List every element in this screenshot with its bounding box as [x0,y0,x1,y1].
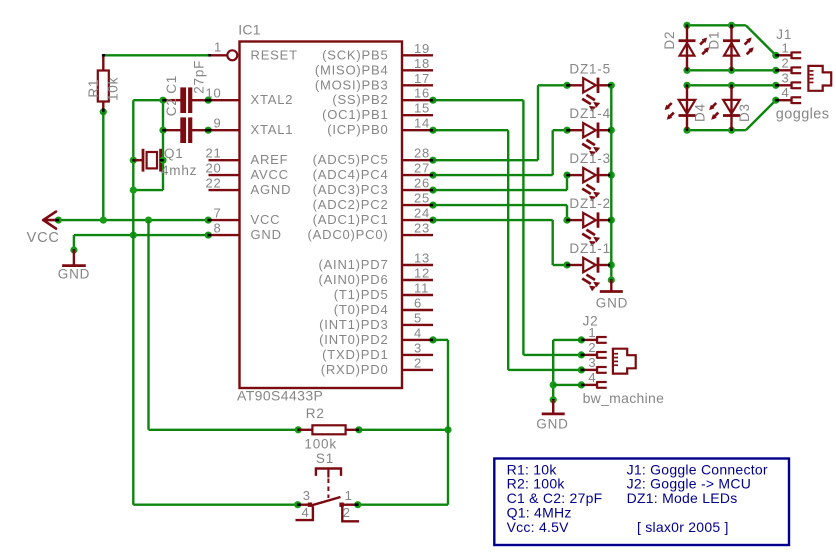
pin 23 stub (right) [402,234,433,236]
ground symbol (DZ LEDs) [600,280,623,292]
junction C2 right pin9 [205,127,212,134]
svg-text:26: 26 [414,176,430,191]
junction J1 pin 2 [772,67,779,74]
junction at pin 27 [429,172,436,179]
svg-text:goggles: goggles [776,106,830,122]
svg-text:8: 8 [213,221,221,236]
junction D2 top [683,22,690,29]
junction D2 bottom [683,67,690,74]
resistor R1 body [98,55,109,112]
junction S1 pin3 [294,501,301,508]
svg-text:13: 13 [414,251,430,266]
svg-text:(MISO)PB4: (MISO)PB4 [315,62,389,77]
wire D2 D1 cathode top to J1 pin1 [687,25,776,55]
svg-text:R1: R1 [86,79,101,98]
pin number 17 [414,71,430,86]
junction DZ1-4 anode [563,127,570,134]
IC IC1 AT90S4433P body outline [240,42,403,389]
wire PC2 pin25 to DZ1-2 [433,205,567,220]
pin 7 stub (left) [209,219,240,221]
Q1 label [164,146,184,161]
J2 pin number 4 [588,370,596,385]
svg-text:IC1: IC1 [238,22,261,38]
svg-text:AT90S4433P: AT90S4433P [237,388,323,404]
junction at pin 16 [429,97,436,104]
pin name RESET [251,47,298,62]
D1 label [707,31,722,50]
junction C1 right pin10 [205,97,212,104]
R2 label [306,406,325,421]
svg-text:27pF: 27pF [191,60,206,94]
svg-text:(OC1)PB1: (OC1)PB1 [322,107,388,122]
pin 4 stub (right) [402,339,433,341]
legend text R2: 100k [507,476,566,492]
pin 21 stub (left) [209,159,240,161]
J1 pin 4 [777,97,801,104]
J2 label [583,313,599,328]
pin 12 stub (right) [402,279,433,281]
svg-text:20: 20 [205,161,221,176]
pin number 9 [213,116,221,131]
junction C1 left [159,97,166,104]
junction J1 pin 3 [772,82,779,89]
svg-text:1: 1 [345,488,353,503]
pin number 28 [414,146,430,161]
pin name (T1)PD5 [334,287,389,302]
pin 9 stub (left) [209,129,240,131]
pin number 13 [414,251,430,266]
wire VCC rail [58,219,208,221]
wire PB2 pin16 to J2 pin2 [433,100,581,355]
junction D4 bottom [683,127,690,134]
svg-text:100k: 100k [304,436,336,451]
svg-text:(AIN0)PD6: (AIN0)PD6 [318,272,388,287]
wire GND rail [74,235,209,250]
pin number 3 [414,340,422,355]
svg-text:(AIN1)PD7: (AIN1)PD7 [318,257,388,272]
svg-text:2: 2 [782,55,790,70]
junction J1 pin 1 [772,52,779,59]
pin number 24 [414,206,430,221]
C1 label [164,75,179,94]
J1 pin number 4 [782,85,790,100]
svg-text:10k: 10k [106,77,121,101]
svg-text:(SS)PB2: (SS)PB2 [332,92,388,107]
resistor R2 body [300,425,359,434]
junction DZ1-1 cathode [608,261,615,268]
S1 label [316,451,334,466]
svg-text:4: 4 [588,370,596,385]
J1 pin number 1 [782,40,790,55]
junction J2 pin 2 [578,351,585,358]
pin 3 stub (right) [402,354,433,356]
junction lineA Q1 left [130,157,137,164]
wire D4 D3 cathode to J1 pin4 [687,100,776,130]
pin 26 stub (right) [402,189,433,191]
wire S1 to INT0 junction [358,430,448,505]
legend box frame [494,459,789,546]
svg-text:3: 3 [588,355,596,370]
crystal Q1 [135,149,164,172]
R2 value 100k [304,436,336,451]
svg-text:(ADC5)PC5: (ADC5)PC5 [313,152,389,167]
legend text J2: Goggle -&gt; MCU [627,476,751,492]
svg-text:7: 7 [213,206,221,221]
svg-text:(T1)PD5: (T1)PD5 [334,287,389,302]
pin name GND [251,227,282,242]
LED D1 [723,27,754,69]
pin 16 stub (right) [402,99,433,101]
svg-text:(ICP)PB0: (ICP)PB0 [327,122,388,137]
junction DZ1-4 cathode [608,127,615,134]
pin name AGND [251,182,292,197]
J2 pin 4 [583,381,607,388]
junction D4 top [683,82,690,89]
wire R1 bottom to VCC rail [102,112,104,220]
svg-text:12: 12 [414,266,430,281]
pin name (ADC5)PC5 [313,152,389,167]
pin name (INT0)PD2 [319,332,388,347]
junction J1 pin 4 [772,97,779,104]
pin number 8 [213,221,221,236]
pin name XTAL2 [251,92,294,107]
svg-text:11: 11 [414,281,429,296]
svg-text:14: 14 [414,116,430,131]
wire PC1 pin24 to DZ1-1 [433,220,566,265]
pin name (AIN0)PD6 [318,272,388,287]
svg-text:5: 5 [414,310,422,325]
legend text Q1: 4MHz [507,505,572,521]
svg-text:AREF: AREF [251,152,289,167]
DZ1-1 label [569,241,611,256]
svg-text:XTAL1: XTAL1 [251,122,294,137]
junction at pin 28 [429,157,436,164]
pin name (ADC0)PC0) [308,227,389,242]
pin number 2 [414,355,422,370]
ground symbol (J2) [542,400,565,414]
junction C2 left [159,127,166,134]
GND label (left) [58,266,90,281]
wire VCC to R2 [149,220,299,430]
LED D3 [709,87,740,129]
pin name (RXD)PD0 [321,362,389,377]
svg-text:15: 15 [414,101,430,116]
svg-text:DZ1: Mode LEDs: DZ1: Mode LEDs [627,490,738,506]
pin number 26 [414,176,430,191]
pin 2 stub (right) [402,369,433,371]
svg-text:D2: D2 [662,31,677,50]
svg-text:GND: GND [536,417,568,432]
pin 11 stub (right) [402,294,433,296]
pin number 23 [414,221,430,236]
switch S1 symbol [296,469,360,522]
LED DZ1-4 [569,123,611,157]
J2 pin number 3 [588,355,596,370]
svg-text:1: 1 [214,39,222,54]
pin name AREF [251,152,289,167]
pin name (SS)PB2 [332,92,388,107]
svg-text:VCC: VCC [27,230,60,246]
S1 pin number 3 [303,488,311,503]
pin number 1 [214,39,222,54]
junction J2 pin 3 [578,366,585,373]
pin 24 stub (right) [402,219,433,221]
pin 5 stub (right) [402,324,433,326]
svg-text:(ADC3)PC3: (ADC3)PC3 [313,182,389,197]
pin 10 stub (left) [209,99,240,101]
S1 pin number 2 [343,505,351,520]
wire R1 top to RESET [102,54,209,57]
wire D2 D1 anode to J1 pin2 [687,69,776,71]
wire Q1 bottom jog [133,189,163,191]
wire PC5 pin28 to DZ1-5 [433,85,566,160]
svg-text:AGND: AGND [251,182,292,197]
svg-text:27: 27 [414,161,430,176]
wire J2 pin1 to GND [553,340,581,400]
junction at pin 26 [429,187,436,194]
pin number 21 [205,146,221,161]
svg-text:J2: J2 [583,313,599,328]
svg-text:23: 23 [414,221,430,236]
pin 8 stub (left) [209,234,240,236]
pin name (INT1)PD3 [319,317,388,332]
pin number 6 [414,296,422,311]
svg-text:(RXD)PD0: (RXD)PD0 [321,362,389,377]
pin 13 stub (right) [402,264,433,266]
R1 label [86,79,101,98]
pin name (ADC3)PC3 [313,182,389,197]
pin name XTAL1 [251,122,294,137]
J2 pin 2 [583,351,607,358]
pin name (ADC1)PC1 [313,212,389,227]
pin name VCC [251,212,281,227]
svg-text:21: 21 [205,146,221,161]
junction GND lineA [130,232,137,239]
pin number 7 [213,206,221,221]
svg-text:18: 18 [414,56,430,71]
svg-text:4: 4 [302,505,310,520]
svg-text:C2: C2 [164,97,179,116]
R1 value 10k [106,77,121,101]
C1 value 27pF [191,60,206,94]
connector J1 housing [808,66,831,91]
svg-text:D4: D4 [693,103,708,122]
D2 label [662,31,677,50]
pin name (T0)PD4 [334,302,389,317]
svg-text:(INT1)PD3: (INT1)PD3 [319,317,388,332]
svg-text:GND: GND [58,266,90,281]
Q1 value 4mhz [161,163,197,178]
junction GND pin8 [205,232,212,239]
wire line A vertical (GND net) [132,100,134,505]
pin number 4 [414,325,422,340]
ground symbol (left) [62,250,86,266]
LED D4 [665,87,696,129]
svg-text:2: 2 [343,505,351,520]
pin number 19 [414,41,430,56]
svg-text:[ slax0r 2005 ]: [ slax0r 2005 ] [637,519,729,535]
wire DZ cathode bus [610,85,612,280]
pin 25 stub (right) [402,204,433,206]
J1 pin 1 [777,52,801,59]
LED DZ1-5 [569,78,611,112]
pin number 20 [205,161,221,176]
svg-text:6: 6 [414,296,422,311]
pin 28 stub (right) [402,159,433,161]
svg-text:16: 16 [414,86,430,101]
svg-text:GND: GND [251,227,282,242]
pin 19 stub (right) [402,54,433,56]
junction DZ1-1 anode [563,261,570,268]
junction VCC pin7 [205,217,212,224]
pin name (ADC4)PC4 [313,167,389,182]
pin name (MOSI)PB3 [315,77,389,92]
junction at pin 25 [429,202,436,209]
junction J2 pin 1 [578,336,585,343]
junction at pin 24 [429,217,436,224]
junction R2 left [295,426,302,433]
pin name (MISO)PB4 [315,62,389,77]
GND label (J2) [536,417,568,432]
svg-text:22: 22 [205,176,221,191]
J2 pin 3 [583,366,607,373]
legend text R1: 10k [507,461,558,477]
junction D1 bottom [728,67,735,74]
svg-text:VCC: VCC [251,212,281,227]
svg-text:Vcc: 4.5V: Vcc: 4.5V [507,519,570,535]
svg-text:(INT0)PD2: (INT0)PD2 [319,332,388,347]
junction R2 right [355,426,362,433]
svg-text:3: 3 [303,488,311,503]
pin name (ADC2)PC2 [313,197,389,212]
svg-text:3: 3 [782,70,790,85]
pin number 25 [414,191,430,206]
pin 20 stub (left) [209,174,240,176]
J2 pin number 2 [588,340,596,355]
VCC supply arrow [43,212,58,229]
svg-text:DZ1-1: DZ1-1 [569,241,611,256]
junction DZ1-5 anode [563,82,570,89]
pin number 14 [414,116,430,131]
J2 value bw_machine [583,390,665,406]
wire line A to S1 [133,504,297,506]
pin number 5 [414,310,422,325]
GND label (DZ LEDs) [596,296,628,311]
J1 pin number 3 [782,70,790,85]
pin 6 stub (right) [402,309,433,311]
J1 value goggles [776,106,830,122]
wire R2 to INT0 junction [359,429,448,431]
pin 27 stub (right) [402,174,433,176]
junction VCC R2 branch [145,217,152,224]
svg-text:DZ1-5: DZ1-5 [569,61,611,76]
junction at pin 14 [429,127,436,134]
pin number 15 [414,101,430,116]
pin name (ICP)PB0 [327,122,388,137]
legend text DZ1: Mode LEDs [627,490,738,506]
VCC net label [27,230,60,246]
junction DZ1-5 cathode [608,82,615,89]
junction J2 pin4 wire [550,381,557,388]
pin number 22 [205,176,221,191]
C2 label [164,97,179,116]
J1 pin 2 [777,67,801,74]
svg-text:1: 1 [782,40,790,55]
wire J2 pin4 to GND [553,384,581,386]
pin number 16 [414,86,430,101]
pin 22 stub (left) [209,189,240,191]
svg-text:28: 28 [414,146,430,161]
svg-text:(ADC0)PC0): (ADC0)PC0) [308,227,389,242]
pin number 27 [414,161,430,176]
junction VCC arrow [55,217,62,224]
junction GND symbol stem [70,246,77,253]
J1 pin number 2 [782,55,790,70]
DZ1-5 label [569,61,611,76]
svg-text:DZ1-2: DZ1-2 [569,196,611,211]
S1 pin number 1 [345,488,353,503]
IC1 value label AT90S4433P [237,388,323,404]
pin 1 RESET stub with inversion circle [208,50,238,60]
junction Q1 right [159,157,166,164]
junction DZ1-2 anode [563,217,570,224]
LED DZ1-3 [569,167,611,201]
pin name (AIN1)PD7 [318,257,388,272]
junction D3 bottom [728,127,735,134]
wire XTAL2 jog [133,99,163,101]
J2 pin number 1 [588,325,596,340]
J2 pin 1 [583,336,607,343]
IC1 reference label [238,22,261,38]
junction DZ bus bottom [608,276,615,283]
svg-text:2: 2 [414,355,422,370]
pin name (TXD)PD1 [322,347,388,362]
svg-text:2: 2 [588,340,596,355]
svg-text:(TXD)PD1: (TXD)PD1 [322,347,388,362]
junction R1 bottom [100,108,107,115]
svg-text:S1: S1 [316,451,334,466]
DZ1-4 label [569,106,611,121]
junction S1 pin1 [354,501,361,508]
pin 14 stub (right) [402,129,433,131]
pin number 10 [205,86,221,101]
junction at pin 4 [429,336,436,343]
svg-text:bw_machine: bw_machine [583,390,665,406]
svg-text:RESET: RESET [251,47,298,62]
D3 label [737,103,752,122]
svg-text:25: 25 [414,191,430,206]
D4 label [693,103,708,122]
junction DZ1-3 cathode [608,172,615,179]
svg-text:D1: D1 [707,31,722,50]
LED DZ1-2 [569,212,611,246]
junction lineA jog [130,187,137,194]
svg-text:GND: GND [596,296,628,311]
J1 label [776,27,792,42]
svg-text:3: 3 [414,340,422,355]
junction DZ1-2 cathode [608,217,615,224]
LED D2 [679,27,710,69]
pin 17 stub (right) [402,84,433,86]
svg-text:4: 4 [414,325,422,340]
junction J2 pin 4 [578,381,585,388]
wire PC4 pin27 to DZ1-4 [433,130,566,175]
wire PC3 pin26 to DZ1-3 [433,175,567,190]
junction D3 top [728,82,735,89]
junction J2 GND stem [550,396,557,403]
svg-text:Q1: Q1 [164,146,184,161]
svg-text:(ADC1)PC1: (ADC1)PC1 [313,212,389,227]
